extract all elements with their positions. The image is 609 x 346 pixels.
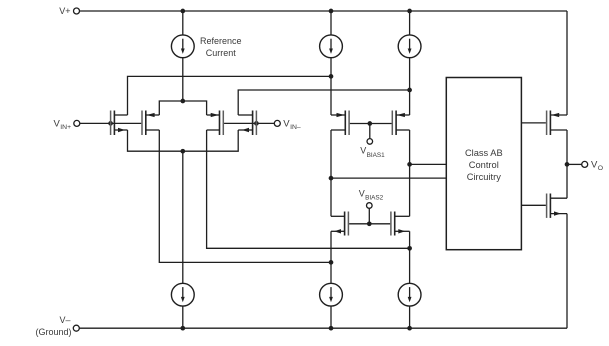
- svg-text:Control: Control: [469, 160, 499, 170]
- svg-text:Circuitry: Circuitry: [467, 172, 501, 182]
- svg-text:Reference: Reference: [200, 36, 242, 46]
- svg-text:IN+: IN+: [60, 124, 71, 131]
- svg-text:O: O: [598, 165, 603, 172]
- svg-text:V: V: [359, 188, 365, 198]
- svg-text:V: V: [360, 146, 366, 156]
- svg-text:Current: Current: [206, 48, 237, 58]
- svg-text:Class AB: Class AB: [465, 148, 503, 158]
- svg-text:IN–: IN–: [290, 124, 301, 131]
- svg-text:BIAS1: BIAS1: [367, 152, 386, 159]
- svg-text:V–: V–: [59, 315, 70, 325]
- svg-text:V+: V+: [59, 6, 70, 16]
- svg-text:BIAS2: BIAS2: [365, 195, 384, 202]
- svg-text:(Ground): (Ground): [35, 327, 71, 337]
